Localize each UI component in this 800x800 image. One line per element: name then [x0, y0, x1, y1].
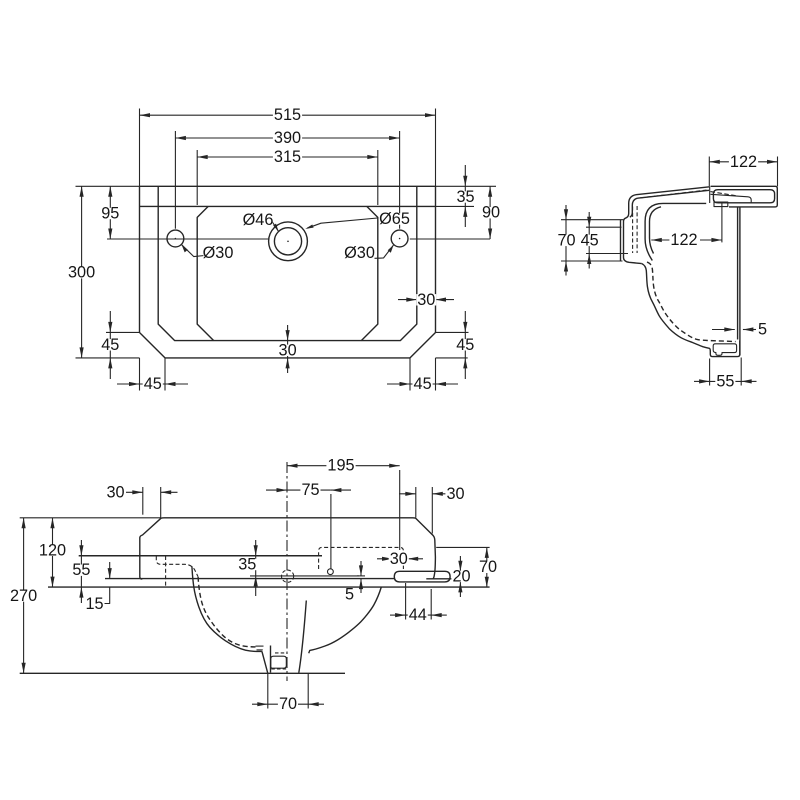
svg-text:30: 30	[417, 291, 435, 309]
front view bowl outline	[197, 206, 378, 340]
svg-text:120: 120	[39, 541, 66, 559]
label D65 leader	[305, 218, 377, 229]
bdim 55	[71, 540, 91, 603]
label D30 right	[344, 244, 375, 262]
side view arm top inner line	[638, 190, 710, 198]
side view bowl inner hidden	[647, 262, 736, 342]
bdim 75	[266, 481, 351, 499]
bottom view tap hole hidden	[282, 570, 294, 582]
svg-text:122: 122	[730, 153, 757, 171]
svg-text:Ø30: Ø30	[203, 244, 234, 262]
bdim 30 top-left ext	[143, 487, 161, 518]
front top ext line right	[436, 185, 497, 187]
bdim 30 top-right	[399, 485, 466, 503]
front view tap hole centreline left	[107, 238, 268, 240]
front view top rim band line	[140, 205, 436, 207]
bottom view fixing slot	[394, 571, 450, 582]
svg-text:70: 70	[479, 558, 497, 576]
side lug face	[620, 220, 622, 261]
svg-text:515: 515	[274, 106, 301, 124]
label D30 left	[203, 244, 234, 262]
svg-text:5: 5	[345, 586, 354, 604]
side view cap junction seam	[709, 187, 711, 204]
front top-left extension line	[76, 185, 140, 187]
side dim 55	[694, 372, 757, 390]
dim 45 bottom-right	[387, 375, 458, 393]
dim 315 extension lines	[197, 150, 378, 205]
dim 45 right vertical	[455, 311, 475, 379]
side view basin interior line 2	[650, 207, 662, 254]
svg-text:45: 45	[144, 375, 162, 393]
bdim 5	[344, 561, 365, 604]
side lug ext lines	[561, 220, 628, 261]
side view rim cap inner outline	[713, 190, 774, 203]
bdim 270	[9, 518, 38, 674]
svg-text:15: 15	[85, 595, 103, 613]
dim 315	[197, 148, 378, 166]
bottom view deck mid line	[105, 578, 454, 580]
label D30 left leader	[182, 245, 205, 257]
dim 390	[175, 129, 399, 147]
svg-text:35: 35	[456, 188, 474, 206]
bdim 30 slot	[377, 550, 423, 568]
bdim 70 bottom ext	[268, 673, 308, 708]
bottom view bowl inner hidden arc	[198, 577, 255, 647]
side dim 122 mid	[651, 231, 722, 249]
svg-text:55: 55	[72, 561, 90, 579]
side dim 122 top	[709, 153, 777, 171]
side dim 55 ext	[710, 358, 742, 386]
side dim 122 mid ext	[721, 203, 723, 243]
side dim 5	[712, 320, 768, 338]
bdim 15	[84, 562, 109, 613]
bottom view tap centre line	[250, 575, 359, 577]
svg-text:70: 70	[279, 695, 297, 713]
label D46 leader	[272, 222, 279, 232]
dim 30 rim width	[398, 291, 454, 309]
bottom view top outline	[140, 518, 436, 557]
svg-text:45: 45	[581, 231, 599, 249]
bottom view centreline	[286, 462, 288, 681]
dim 300	[67, 186, 96, 358]
dim 35	[455, 165, 475, 227]
front view centre hole outer	[269, 222, 308, 261]
svg-text:390: 390	[274, 129, 301, 147]
svg-text:75: 75	[301, 481, 319, 499]
svg-text:Ø46: Ø46	[243, 211, 274, 229]
svg-text:5: 5	[758, 320, 767, 338]
side dim 122 top ext	[709, 157, 777, 187]
side view rim cap tongue hidden	[711, 192, 737, 196]
label D65	[379, 210, 410, 228]
svg-text:45: 45	[456, 336, 474, 354]
dim 30 bottom	[278, 325, 298, 373]
front chamfer ext right	[436, 331, 469, 333]
bottom view baseline	[20, 672, 345, 674]
dim 390 extension lines	[175, 131, 399, 229]
bottom view left edge lower	[140, 552, 143, 579]
side view front face inner	[630, 198, 638, 217]
dim 45 bottom-left ext	[140, 358, 166, 391]
side view junction rect	[714, 202, 728, 207]
bdim 20	[451, 556, 471, 597]
svg-text:30: 30	[106, 483, 124, 501]
front bottom ext line left	[76, 357, 140, 359]
svg-text:95: 95	[101, 205, 119, 223]
bdim 44	[390, 606, 447, 624]
front bottom ext right	[436, 357, 468, 359]
bdim 35	[237, 540, 257, 596]
bdim 270 ext	[20, 517, 161, 519]
bottom view deck top line	[79, 555, 322, 557]
dim 90	[481, 186, 501, 239]
svg-text:300: 300	[68, 264, 95, 282]
bottom view bowl left step	[256, 646, 264, 650]
svg-text:122: 122	[670, 231, 697, 249]
front band ext line right	[436, 205, 475, 207]
dim 515	[140, 106, 436, 124]
svg-text:30: 30	[279, 341, 297, 359]
side view foot slot	[713, 344, 736, 356]
bdim 70 bottom	[252, 695, 324, 713]
svg-text:20: 20	[452, 567, 470, 585]
label D46	[243, 211, 274, 229]
dim 515 extension lines	[140, 109, 436, 187]
bdim 70 right	[478, 547, 498, 587]
front view centre hole inner	[274, 228, 301, 255]
svg-text:55: 55	[716, 372, 734, 390]
bottom view small hole	[328, 569, 334, 575]
side dim 70	[556, 205, 576, 276]
front view tap hole centreline right	[410, 238, 490, 240]
svg-text:45: 45	[101, 336, 119, 354]
bdim 75 ext	[330, 494, 332, 569]
side view arm hidden mid line	[640, 190, 707, 198]
side view front face outer	[624, 195, 642, 264]
bottom view drain funnel	[262, 651, 268, 673]
side view rim cap tongue	[711, 194, 752, 202]
side lug hidden bolt lines	[633, 206, 638, 253]
side view arm top outer line	[636, 187, 710, 195]
bdim 195 ext	[399, 470, 401, 550]
bottom view deck bottom line	[48, 586, 490, 588]
label D30 right leader	[375, 245, 394, 258]
bottom view left bracket hidden vertical	[165, 556, 167, 588]
bdim 120	[38, 518, 67, 587]
side view basin interior line	[645, 203, 706, 260]
dim 45 bottom-left	[117, 375, 188, 393]
bdim 44 ext	[406, 583, 432, 620]
bdim 30 top-right ext	[416, 487, 433, 534]
svg-text:44: 44	[409, 606, 427, 624]
bottom view right edge lower	[433, 557, 435, 579]
svg-text:Ø65: Ø65	[379, 210, 410, 228]
svg-text:45: 45	[414, 375, 432, 393]
svg-text:35: 35	[238, 556, 256, 574]
svg-text:270: 270	[10, 587, 37, 605]
side view wall plate	[738, 207, 740, 356]
bottom view drain pipe	[271, 601, 307, 673]
dim 95	[100, 186, 120, 239]
front view right tap hole	[391, 230, 408, 247]
svg-text:315: 315	[274, 148, 301, 166]
front chamfer ext left	[106, 331, 140, 333]
bottom view overflow pocket	[271, 656, 287, 668]
svg-text:30: 30	[446, 485, 464, 503]
bottom view bowl outer arc right	[309, 587, 382, 653]
front view outer outline	[140, 186, 436, 358]
svg-text:30: 30	[390, 550, 408, 568]
svg-text:195: 195	[327, 457, 354, 475]
bdim 195	[287, 457, 400, 475]
svg-text:70: 70	[557, 231, 575, 249]
bottom view bowl outer arc left	[192, 566, 262, 651]
side view bowl outer	[642, 264, 740, 357]
side view rim top cap outline	[711, 186, 778, 207]
front view inner rim outline	[158, 186, 417, 340]
bdim 30 top-left	[105, 483, 177, 501]
dim 45 bottom-right ext	[410, 358, 436, 391]
dim 45 left vertical	[100, 311, 120, 379]
side dim 45	[580, 212, 600, 269]
bottom view left bracket hidden	[156, 556, 198, 577]
front view left tap hole	[167, 230, 184, 247]
bottom view right recess hidden	[319, 547, 404, 569]
bottom view overflow hidden lines	[271, 653, 287, 669]
bdim 70 right ext	[436, 546, 489, 548]
svg-text:Ø30: Ø30	[344, 244, 375, 262]
svg-text:90: 90	[482, 204, 500, 222]
